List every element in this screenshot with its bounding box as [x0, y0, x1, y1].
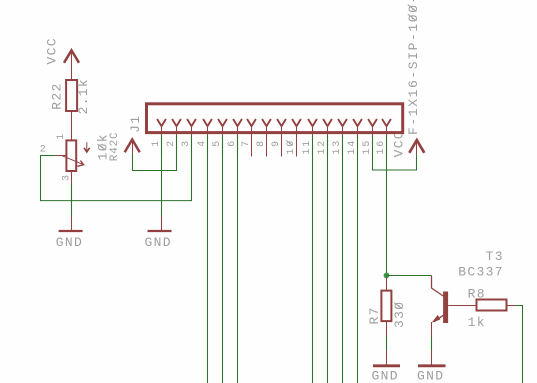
pin 11 fork [308, 119, 317, 157]
trimmer adjust down-arrow [84, 142, 90, 152]
wire trimmer pin2 stub [40, 155, 54, 157]
wire J1 pin4 down [207, 135, 209, 383]
svg-text:13: 13 [332, 139, 343, 155]
wire pin15 to VCC [416, 140, 418, 154]
resistor R7 [386, 278, 388, 291]
emitter lead with arrow [434, 315, 443, 322]
base lead [448, 305, 476, 307]
svg-text:1k: 1k [468, 315, 486, 330]
svg-text:5: 5 [212, 139, 223, 147]
pin 2 fork [172, 119, 181, 157]
svg-text:R22: R22 [50, 82, 65, 109]
wire trimmer pin3 down to GND [71, 171, 73, 230]
svg-text:8: 8 [256, 139, 267, 147]
wire J1 pin6 down [237, 135, 239, 383]
wire J1 pin3 down to gnd rail [191, 135, 193, 201]
svg-text:GND: GND [372, 369, 399, 383]
pin 16 fork [382, 119, 391, 157]
svg-text:7: 7 [241, 139, 252, 147]
svg-text:T3: T3 [486, 249, 504, 264]
wire J1 pin1 down to gnd rail [161, 135, 163, 201]
svg-text:15: 15 [362, 139, 373, 155]
pin 14 fork [353, 119, 362, 157]
wire J1 pin5 down [222, 135, 224, 383]
pin 7 fork [247, 119, 256, 157]
svg-text:14: 14 [347, 139, 358, 155]
pin 13 fork [338, 119, 347, 157]
wire J1 pin16 down to junction and R7 [386, 135, 388, 276]
power VCC symbol top-left [64, 50, 79, 80]
pin 1 fork [157, 119, 166, 157]
ground GND4 (under emitter) [418, 364, 446, 367]
svg-text:3: 3 [62, 173, 73, 181]
svg-text:F-1X16-SIP-100-: F-1X16-SIP-100- [406, 0, 421, 135]
resistor R22 [66, 80, 77, 111]
base bar [443, 292, 448, 324]
pin 12 fork [323, 119, 332, 157]
pin 9 fork [277, 119, 286, 157]
svg-text:R42C: R42C [109, 132, 121, 162]
pin 5 fork [218, 119, 227, 157]
svg-text:330: 330 [392, 301, 407, 328]
svg-text:R8: R8 [468, 287, 486, 302]
pin 10 slashed zero [286, 140, 293, 145]
collector lead [432, 276, 444, 297]
svg-text:R7: R7 [367, 306, 382, 324]
svg-text:BC337: BC337 [458, 264, 504, 279]
svg-text:1: 1 [151, 139, 162, 147]
wire VCC to J1 pin2 [132, 140, 134, 154]
svg-text:6: 6 [227, 139, 238, 147]
wire pin2 loop down [40, 155, 42, 201]
pin 15 fork [368, 119, 377, 157]
power VCC symbol at J1 pin15 [409, 140, 424, 153]
pin 3 fork [187, 119, 196, 157]
pin 4 fork [203, 119, 212, 157]
power VCC symbol at J1 pin 2 [125, 140, 140, 153]
wire R8 right to edge corner down [507, 305, 516, 307]
trimmer wiper diagonal with arrowhead [62, 156, 84, 167]
trimmer potentiometer R42C body [66, 140, 76, 171]
svg-text:VCC: VCC [391, 130, 406, 157]
svg-text:1: 1 [56, 132, 67, 140]
svg-text:3: 3 [181, 139, 192, 147]
junction dot pin16/R7/collector [384, 273, 390, 279]
pin 10 fork [292, 119, 301, 157]
ground GND2 (under J1 pin1) [161, 201, 163, 230]
wire horizontal gnd rail [40, 200, 192, 202]
wire J1 pin12 down [327, 135, 329, 383]
connector J1 box [147, 104, 403, 133]
svg-text:4: 4 [197, 139, 208, 147]
transistor T3 BC337 [432, 276, 477, 365]
svg-text:2.1k: 2.1k [76, 78, 91, 114]
ground GND3 (under R7) [373, 364, 400, 367]
svg-text:GND: GND [56, 235, 83, 250]
pin 6 fork [233, 119, 242, 157]
wire J1 pin11 down [312, 135, 314, 383]
svg-text:16: 16 [376, 139, 387, 155]
pin 8 fork [262, 119, 271, 157]
wire J1 pin14 down [357, 135, 359, 383]
svg-text:9: 9 [271, 139, 282, 147]
J1 pin forks and stubs with pin number labels [151, 119, 391, 157]
svg-text:11: 11 [302, 139, 313, 155]
wire junction to collector [387, 275, 432, 277]
svg-text:2: 2 [40, 145, 48, 156]
svg-text:2: 2 [166, 139, 177, 147]
svg-text:12: 12 [317, 139, 328, 155]
svg-text:GND: GND [145, 235, 172, 250]
wire R7 bottom to GND [386, 321, 388, 364]
wire R22 bottom to trimmer pin 1 [71, 111, 73, 140]
svg-text:GND: GND [417, 369, 444, 383]
svg-text:J1: J1 [128, 115, 143, 133]
svg-text:VCC: VCC [44, 37, 59, 64]
ground GND1 (under trimmer) [59, 230, 83, 232]
wire J1 pin13 down [342, 135, 344, 383]
resistor R8 [477, 300, 507, 311]
